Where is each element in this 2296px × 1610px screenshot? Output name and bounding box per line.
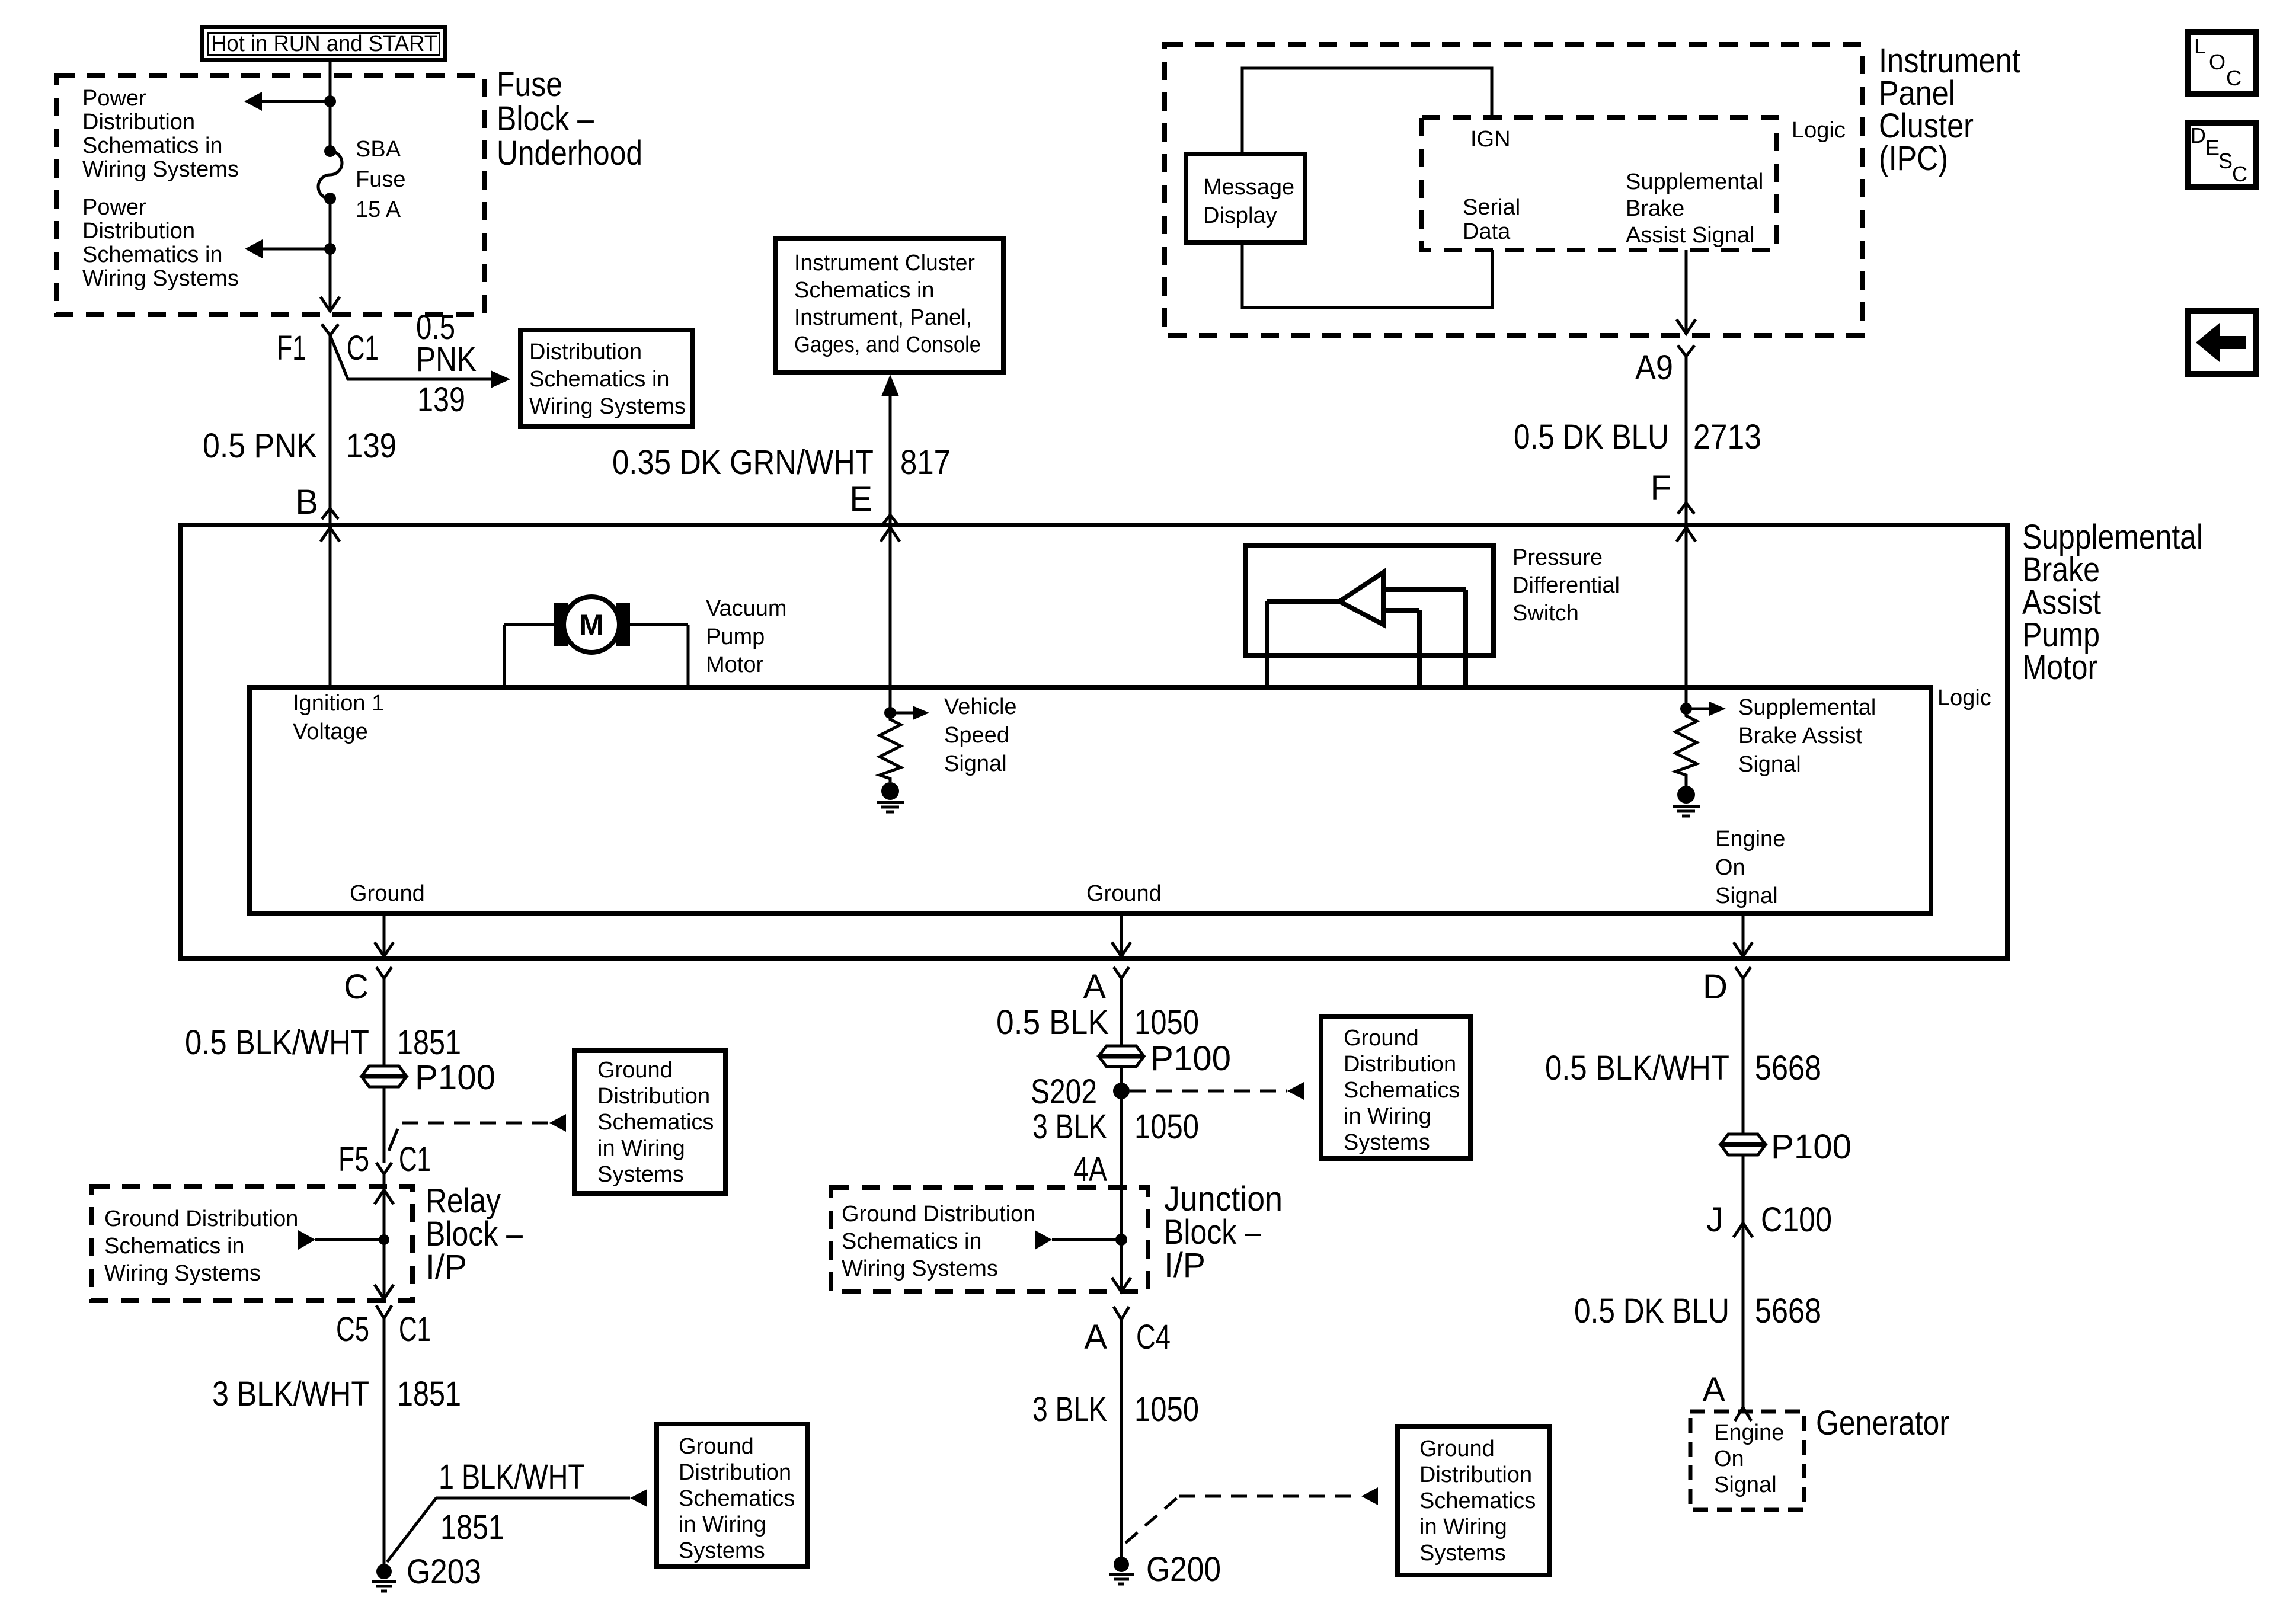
svg-text:Schematics: Schematics	[597, 1110, 714, 1135]
svg-text:Distribution: Distribution	[529, 340, 642, 364]
svg-text:Distribution: Distribution	[1344, 1052, 1456, 1077]
switch triangle	[1339, 572, 1383, 625]
label SBA Fuse 15 A	[356, 137, 405, 222]
node connector F1/C1	[277, 324, 379, 367]
svg-text:Systems: Systems	[679, 1538, 765, 1563]
svg-text:Schematics in: Schematics in	[529, 367, 670, 392]
svg-text:D: D	[1703, 968, 1728, 1006]
svg-text:Serial: Serial	[1463, 195, 1520, 220]
node Power Distribution reference text 2	[82, 195, 239, 291]
generator dashed box	[1690, 1411, 1804, 1510]
svg-text:S: S	[2218, 149, 2233, 173]
node Instrument Cluster Schematics box	[776, 239, 1003, 372]
wire engine-on D exits	[1734, 914, 1753, 956]
svg-text:Ground: Ground	[1419, 1436, 1495, 1461]
connector P100 on D wire	[1721, 1128, 1851, 1166]
svg-text:C: C	[2232, 162, 2247, 186]
label Supplemental Brake Assist Signal (pump)	[1738, 695, 1876, 777]
svg-text:Schematics: Schematics	[679, 1486, 795, 1511]
svg-text:PNK: PNK	[416, 340, 477, 379]
node vehicle speed signal junction	[884, 706, 929, 720]
svg-text:IGN: IGN	[1470, 127, 1511, 152]
svg-text:C: C	[344, 968, 369, 1006]
wire arrowhead up into relay block	[375, 1190, 394, 1204]
svg-text:3 BLK: 3 BLK	[1032, 1390, 1107, 1429]
node connector E	[849, 480, 898, 526]
fuse block dashed box	[56, 76, 485, 315]
svg-text:Schematics in: Schematics in	[82, 242, 223, 267]
wire arrow to Power Distribution 2	[245, 239, 330, 258]
svg-text:Engine: Engine	[1714, 1420, 1784, 1445]
svg-text:Distribution: Distribution	[679, 1460, 791, 1485]
svg-text:0.5 BLK/WHT: 0.5 BLK/WHT	[185, 1023, 369, 1062]
svg-text:0.35 DK GRN/WHT: 0.35 DK GRN/WHT	[612, 443, 874, 482]
svg-text:in Wiring: in Wiring	[1344, 1104, 1431, 1129]
svg-text:Vacuum: Vacuum	[706, 596, 787, 621]
wire F into box down to node	[1677, 527, 1696, 709]
svg-text:Ground: Ground	[1086, 881, 1162, 906]
wire IGN to Message Display top	[1242, 68, 1492, 154]
svg-text:Motor: Motor	[2022, 648, 2097, 687]
svg-text:in Wiring: in Wiring	[597, 1136, 685, 1161]
node junction dot 1	[324, 95, 336, 107]
svg-text:Differential: Differential	[1512, 573, 1620, 598]
wire from triangle tip	[1267, 599, 1339, 604]
svg-text:Schematics in: Schematics in	[842, 1229, 982, 1254]
wire arrow to Power Distribution 1	[244, 92, 330, 111]
svg-text:Signal: Signal	[1714, 1473, 1777, 1497]
svg-text:Switch: Switch	[1512, 601, 1579, 626]
svg-text:Schematics in: Schematics in	[82, 133, 223, 158]
node Ground Distribution box 3	[657, 1424, 808, 1567]
node connector B	[295, 483, 338, 521]
svg-text:Wiring Systems: Wiring Systems	[82, 266, 239, 291]
svg-text:Message: Message	[1203, 175, 1294, 200]
wire branch 0.5 PNK 139	[330, 308, 510, 419]
svg-text:Assist Signal: Assist Signal	[1626, 223, 1755, 248]
svg-text:Instrument Cluster: Instrument Cluster	[794, 251, 975, 276]
svg-text:139: 139	[346, 427, 396, 465]
svg-text:(IPC): (IPC)	[1879, 139, 1948, 178]
motor M vacuum pump	[504, 597, 688, 687]
node connector D	[1703, 967, 1751, 1006]
svg-text:Wiring Systems: Wiring Systems	[104, 1261, 261, 1286]
svg-text:1050: 1050	[1134, 1108, 1199, 1146]
label Supplemental Brake Assist Pump Motor	[2022, 518, 2203, 687]
wire dashed reference to ground distribution box 2	[1130, 1082, 1304, 1100]
svg-text:Underhood: Underhood	[497, 134, 642, 172]
svg-text:G200: G200	[1146, 1550, 1221, 1589]
svg-text:A: A	[1084, 1318, 1107, 1356]
wire A/C4 to G200, label 3 BLK 1050	[1032, 1320, 1199, 1558]
svg-text:F1: F1	[277, 329, 306, 367]
label Relay Block I/P	[426, 1182, 523, 1286]
svg-text:Brake Assist: Brake Assist	[1738, 724, 1863, 748]
svg-text:P100: P100	[415, 1058, 495, 1097]
label Engine On Signal (generator)	[1714, 1420, 1784, 1497]
svg-text:Distribution: Distribution	[82, 110, 195, 135]
label Instrument Panel Cluster (IPC)	[1879, 41, 2020, 178]
svg-text:15 A: 15 A	[356, 197, 401, 222]
wire junction block arrow to junction	[1035, 1230, 1127, 1250]
svg-text:1 BLK/WHT: 1 BLK/WHT	[439, 1458, 585, 1496]
svg-text:0.5 DK BLU: 0.5 DK BLU	[1514, 418, 1669, 456]
wire F1 to B, label 0.5 PNK 139	[203, 335, 396, 525]
svg-text:J: J	[1706, 1201, 1723, 1239]
label Junction Block I/P	[1164, 1180, 1283, 1285]
resistor brake assist	[1675, 709, 1697, 786]
wire A9 from logic box down	[1677, 250, 1696, 334]
wire B into box	[321, 527, 340, 687]
wire Serial Data to Message Display bottom	[1242, 242, 1492, 308]
svg-text:F5: F5	[338, 1140, 369, 1179]
svg-text:Schematics: Schematics	[1419, 1489, 1536, 1513]
svg-text:Voltage: Voltage	[293, 719, 368, 744]
junction block dashed box	[831, 1188, 1148, 1292]
svg-text:Power: Power	[82, 86, 146, 111]
svg-text:Systems: Systems	[1344, 1130, 1430, 1155]
label Serial Data	[1463, 195, 1520, 244]
svg-text:O: O	[2209, 50, 2225, 74]
svg-text:3 BLK/WHT: 3 BLK/WHT	[212, 1375, 369, 1413]
ground G200	[1109, 1550, 1221, 1589]
svg-text:I/P: I/P	[426, 1248, 467, 1286]
svg-text:Pressure: Pressure	[1512, 545, 1603, 570]
svg-text:B: B	[295, 483, 318, 521]
node connector A9	[1635, 345, 1694, 387]
resistor vehicle speed	[880, 713, 901, 782]
wire D to P100, label 0.5 BLK/WHT 5668	[1545, 978, 1821, 1223]
Supplemental Brake Assist Pump Motor outer box	[181, 525, 2007, 959]
label Supplemental Brake Assist Signal	[1626, 169, 1763, 248]
node connector A/C4	[1084, 1307, 1171, 1356]
node connector C5/C1	[336, 1305, 431, 1349]
svg-text:Generator: Generator	[1816, 1404, 1949, 1442]
node junction block reference text	[842, 1202, 1035, 1281]
svg-text:I/P: I/P	[1164, 1246, 1205, 1285]
svg-text:C5: C5	[336, 1310, 369, 1349]
node connector A	[1083, 967, 1129, 1006]
node Message Display box	[1186, 154, 1305, 242]
node Ground Distribution box 2	[1321, 1017, 1470, 1158]
label Ignition 1 Voltage	[293, 691, 384, 744]
svg-text:Signal: Signal	[944, 751, 1007, 776]
svg-text:Systems: Systems	[1419, 1541, 1506, 1566]
svg-text:Engine: Engine	[1715, 827, 1785, 852]
svg-text:Logic: Logic	[1937, 686, 1991, 710]
wire dashed reference to ground distribution box 4	[1125, 1487, 1378, 1543]
wire J to generator, label 0.5 DK BLU 5668	[1574, 1223, 1821, 1409]
svg-text:M: M	[579, 609, 604, 642]
wire E up arrow into box	[612, 375, 951, 525]
wire from triangle base upper	[1383, 587, 1466, 592]
svg-text:1851: 1851	[440, 1508, 504, 1547]
inner logic box	[250, 687, 1931, 914]
wire arrowhead down in junction block	[1112, 1278, 1131, 1292]
label Engine On Signal (pump)	[1715, 827, 1785, 908]
connector P100 on A wire	[1099, 1039, 1231, 1078]
wire fuse to F1	[329, 199, 332, 311]
svg-text:Instrument, Panel,: Instrument, Panel,	[794, 305, 972, 330]
node Distribution Schematics box	[520, 330, 692, 427]
wire arrowhead at fuse box exit	[321, 297, 340, 311]
svg-text:C1: C1	[347, 329, 379, 367]
wire C to P100, label 0.5 BLK/WHT 1851	[185, 978, 461, 1163]
svg-text:2713: 2713	[1693, 418, 1761, 456]
svg-text:Schematics in: Schematics in	[794, 278, 935, 303]
svg-text:On: On	[1714, 1446, 1744, 1471]
svg-text:1050: 1050	[1134, 1390, 1199, 1429]
Instrument Panel Cluster dashed box	[1165, 44, 1862, 335]
svg-text:Ground: Ground	[679, 1434, 754, 1459]
svg-text:Ground: Ground	[350, 881, 425, 906]
svg-text:A: A	[1702, 1371, 1725, 1409]
svg-text:E: E	[849, 480, 872, 518]
svg-text:0.5 DK BLU: 0.5 DK BLU	[1574, 1292, 1729, 1330]
label 3 BLK 1050 upper	[1032, 1108, 1199, 1146]
wire E into box down to node	[881, 527, 900, 713]
svg-text:4A: 4A	[1073, 1150, 1107, 1189]
svg-text:E: E	[2205, 136, 2220, 160]
svg-text:S202: S202	[1031, 1073, 1097, 1111]
svg-text:Hot in RUN and START: Hot in RUN and START	[211, 31, 437, 56]
svg-text:C4: C4	[1136, 1318, 1171, 1356]
svg-text:A: A	[1083, 968, 1106, 1006]
svg-text:F: F	[1651, 469, 1671, 507]
svg-text:Pump: Pump	[706, 625, 765, 649]
label Vacuum Pump Motor	[706, 596, 787, 677]
wire relay block arrow to junction	[298, 1230, 389, 1250]
svg-text:Distribution: Distribution	[597, 1084, 710, 1109]
node supplemental brake assist signal junction	[1680, 702, 1726, 716]
svg-text:Signal: Signal	[1738, 752, 1801, 777]
fuse SBA 15A symbol	[318, 145, 342, 204]
node Power Distribution reference text 1	[82, 86, 239, 182]
svg-text:0.5 PNK: 0.5 PNK	[203, 427, 317, 465]
svg-text:139: 139	[417, 380, 465, 419]
node junction dot 2	[324, 243, 336, 255]
svg-text:C1: C1	[399, 1140, 431, 1179]
svg-text:Wiring Systems: Wiring Systems	[842, 1256, 998, 1281]
label Pressure Differential Switch	[1512, 545, 1620, 626]
svg-text:Motor: Motor	[706, 652, 763, 677]
node splice S202	[1031, 1073, 1130, 1111]
svg-text:Brake: Brake	[1626, 196, 1684, 221]
svg-text:Vehicle: Vehicle	[944, 694, 1017, 719]
svg-text:On: On	[1715, 855, 1745, 880]
svg-text:3 BLK: 3 BLK	[1032, 1108, 1107, 1146]
svg-text:G203: G203	[407, 1553, 481, 1591]
IPC logic dashed box	[1422, 117, 1776, 250]
svg-text:Supplemental: Supplemental	[1738, 695, 1876, 720]
node connector A generator	[1702, 1371, 1751, 1421]
label Vehicle Speed Signal	[944, 694, 1017, 776]
wire dashed reference to ground distribution box 1	[389, 1114, 566, 1151]
svg-text:Distribution: Distribution	[82, 219, 195, 244]
ground internal right	[1673, 786, 1700, 816]
svg-text:Supplemental: Supplemental	[1626, 169, 1763, 194]
ground internal left	[877, 782, 904, 812]
relay block dashed box	[91, 1186, 412, 1301]
pressure differential switch box	[1246, 545, 1494, 655]
svg-text:P100: P100	[1150, 1039, 1231, 1078]
svg-text:817: 817	[900, 443, 951, 482]
svg-text:Systems: Systems	[597, 1162, 684, 1187]
svg-text:Block –: Block –	[497, 100, 594, 138]
svg-text:in Wiring: in Wiring	[1419, 1515, 1507, 1539]
svg-text:A9: A9	[1635, 348, 1673, 387]
svg-text:Ground Distribution: Ground Distribution	[842, 1202, 1035, 1227]
svg-text:0.5 BLK/WHT: 0.5 BLK/WHT	[1545, 1049, 1729, 1087]
svg-text:Schematics: Schematics	[1344, 1078, 1460, 1103]
node Ground Distribution box 4	[1398, 1426, 1549, 1575]
svg-text:Ignition 1: Ignition 1	[293, 691, 384, 716]
wire ground A exits	[1112, 914, 1131, 956]
node connector C	[344, 967, 392, 1006]
wire C5 to G203, label 3 BLK/WHT 1851	[212, 1318, 461, 1565]
node connector J/C100	[1706, 1201, 1832, 1239]
node DESC icon box	[2188, 123, 2256, 187]
svg-text:Data: Data	[1463, 219, 1511, 244]
svg-text:0.5 BLK: 0.5 BLK	[996, 1003, 1109, 1042]
svg-text:Fuse: Fuse	[356, 167, 405, 192]
node relay block reference text	[104, 1206, 298, 1286]
connector P100 on C wire	[362, 1058, 495, 1097]
svg-text:L: L	[2194, 34, 2206, 58]
svg-text:Power: Power	[82, 195, 146, 220]
node LOC icon box	[2188, 32, 2256, 94]
node connector F	[1651, 469, 1694, 514]
svg-text:Ground Distribution: Ground Distribution	[104, 1206, 298, 1231]
wire from triangle base lower	[1383, 608, 1419, 613]
node Hot in RUN and START title box	[202, 27, 446, 60]
wire through relay block	[383, 1174, 386, 1299]
svg-text:in Wiring: in Wiring	[679, 1512, 766, 1537]
node Ground Distribution box 1	[574, 1051, 725, 1193]
node connector F5/C1	[338, 1140, 431, 1179]
wire ground C exits	[375, 914, 394, 956]
svg-text:P100: P100	[1771, 1128, 1851, 1166]
svg-text:Display: Display	[1203, 203, 1277, 228]
svg-text:Wiring Systems: Wiring Systems	[82, 157, 239, 182]
svg-text:Wiring Systems: Wiring Systems	[529, 394, 686, 419]
svg-text:Ground: Ground	[597, 1058, 673, 1083]
svg-text:D: D	[2191, 123, 2206, 148]
svg-text:Gages, and Console: Gages, and Console	[794, 332, 981, 357]
svg-text:1851: 1851	[397, 1375, 461, 1413]
wire branch 1 BLK/WHT 1851	[387, 1458, 647, 1562]
svg-text:Ground: Ground	[1344, 1026, 1419, 1051]
svg-text:C1: C1	[399, 1310, 431, 1349]
node back-arrow icon box	[2188, 311, 2256, 374]
svg-text:5668: 5668	[1755, 1292, 1821, 1330]
wire A9 to F, label 0.5 DK BLU 2713	[1514, 356, 1761, 525]
svg-text:SBA: SBA	[356, 137, 401, 162]
svg-text:1851: 1851	[397, 1023, 461, 1062]
svg-text:Speed: Speed	[944, 723, 1009, 748]
svg-text:Signal: Signal	[1715, 884, 1778, 908]
wire from Hot box to fuse	[329, 62, 332, 151]
svg-text:Fuse: Fuse	[497, 65, 562, 104]
wire arrowhead down in relay block	[375, 1285, 394, 1299]
svg-text:Distribution: Distribution	[1419, 1462, 1532, 1487]
svg-text:Schematics in: Schematics in	[104, 1234, 245, 1259]
ground G203	[372, 1553, 481, 1591]
svg-text:C100: C100	[1761, 1201, 1832, 1239]
svg-text:1050: 1050	[1134, 1003, 1199, 1042]
wire A to junction block, labels	[996, 978, 1199, 1292]
svg-text:C: C	[2226, 66, 2241, 90]
svg-text:5668: 5668	[1755, 1049, 1821, 1087]
svg-text:Logic: Logic	[1792, 118, 1846, 143]
